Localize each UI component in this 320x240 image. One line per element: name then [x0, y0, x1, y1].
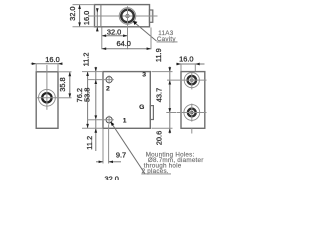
extension lines top view left — [73, 4, 95, 6]
svg-text:20.6: 20.6 — [154, 131, 163, 145]
port 2 circle — [106, 77, 112, 83]
svg-text:35.8: 35.8 — [58, 77, 67, 91]
right view lower port dark ring — [188, 109, 196, 117]
svg-text:11.2: 11.2 — [85, 136, 94, 150]
right view upper port dark ring — [188, 76, 196, 84]
mounting hole leader — [111, 123, 145, 174]
right view lower port crosshairs — [177, 112, 207, 114]
front view outline — [103, 72, 150, 129]
dim 76.2 line — [87, 72, 89, 129]
left view port dark ring — [42, 93, 51, 102]
dim 9.7 extension lines — [102, 129, 104, 164]
svg-text:11.2: 11.2 — [81, 52, 90, 66]
svg-text:G: G — [139, 104, 144, 111]
right view upper port crosshairs — [167, 79, 207, 81]
right view lower port outer — [184, 105, 200, 121]
svg-text:32.0: 32.0 — [105, 174, 119, 180]
right view upper port outer — [184, 73, 199, 88]
dim 11.2 bottom — [95, 120, 97, 151]
left view outline — [36, 72, 58, 129]
dim 20.6 text — [168, 128, 171, 132]
svg-text:1: 1 — [123, 117, 127, 124]
svg-text:32.0: 32.0 — [68, 7, 77, 21]
top view body outline — [95, 5, 150, 27]
svg-text:64.0: 64.0 — [117, 39, 131, 48]
dim 53.8 line — [95, 84, 97, 115]
dim line column x=95.8 upper — [95, 67, 97, 84]
cavity vertical crosshair — [127, 6, 129, 26]
front view right tab (G boss) — [150, 106, 153, 120]
svg-text:53.8: 53.8 — [83, 88, 92, 102]
svg-text:16.0: 16.0 — [179, 55, 193, 64]
right view lower port center dot — [190, 111, 193, 114]
left view crosshairs — [37, 97, 58, 99]
svg-text:9.7: 9.7 — [116, 150, 126, 159]
svg-text:43.7: 43.7 — [155, 88, 164, 102]
top view right tab (G boss) — [150, 10, 153, 22]
top view horizontal centerline — [89, 15, 158, 17]
svg-text:16.0: 16.0 — [45, 55, 59, 64]
left view port circle outer — [39, 89, 56, 106]
svg-text:11.9: 11.9 — [154, 48, 163, 62]
right dim column line x=169.8 — [169, 67, 171, 134]
port 1 circle — [106, 117, 112, 123]
right view upper port center ring — [190, 79, 193, 82]
extension lines front view left — [82, 71, 103, 73]
right view outline — [181, 72, 205, 129]
svg-text:16.0: 16.0 — [82, 11, 91, 25]
cavity dark ring — [121, 10, 134, 23]
leader to 11A3 cavity label — [133, 22, 156, 41]
top view inner plate edge line — [100, 5, 102, 27]
cavity center small ring — [126, 14, 129, 17]
svg-text:2: 2 — [106, 85, 110, 92]
svg-text:3: 3 — [142, 71, 146, 78]
cavity 11A3 circle outer thin — [119, 8, 136, 25]
extension lines right of front view — [152, 71, 173, 73]
